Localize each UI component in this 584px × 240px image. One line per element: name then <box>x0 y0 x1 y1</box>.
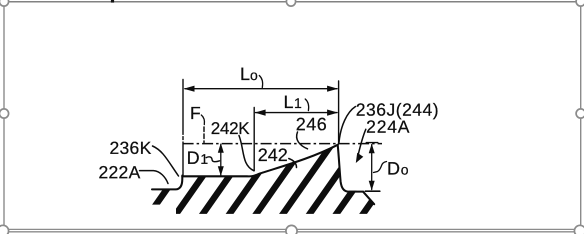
svg-text:L1: L1 <box>284 92 303 112</box>
wire L0 extension left <box>182 80 184 177</box>
selection frame top edge <box>4 1 581 3</box>
leader 236J <box>339 107 356 143</box>
arrow L0 right <box>327 86 338 92</box>
wire L1 extension left <box>253 108 255 171</box>
handle top-center <box>286 0 295 6</box>
dimension L0 line <box>185 88 337 90</box>
leader F curl <box>201 115 204 125</box>
svg-text:Lo: Lo <box>240 64 258 84</box>
svg-text:246: 246 <box>296 114 328 134</box>
dimension L1 line <box>256 112 338 114</box>
selection frame bottom double line <box>0 228 584 230</box>
leader 242 curl <box>289 159 297 168</box>
svg-text:D1: D1 <box>187 148 209 168</box>
arrow D1 up <box>218 143 224 153</box>
leader 242K <box>239 136 254 171</box>
arrow 224A tip <box>356 153 364 163</box>
selection frame right edge <box>580 2 582 229</box>
profile base surface + slope to peak <box>182 145 337 177</box>
leader Lo curl <box>259 76 262 88</box>
surface profile outline <box>152 145 374 204</box>
arrow D1 down <box>218 166 224 176</box>
handle bottom-right <box>574 225 584 236</box>
D0 top tick <box>366 142 378 144</box>
handle mid-right <box>576 109 584 118</box>
svg-text:Do: Do <box>387 159 409 179</box>
centerline dash-dot <box>183 143 382 145</box>
handle top-left <box>0 0 9 6</box>
profile right face + bottom flat <box>338 145 364 192</box>
leader 236K <box>153 146 179 176</box>
handle top-right <box>576 0 584 6</box>
profile right end cut <box>363 192 374 204</box>
svg-text:236K: 236K <box>109 138 151 158</box>
arrow L1 right <box>327 110 338 116</box>
cursor tick top <box>111 0 114 3</box>
arrow L1 left <box>255 110 266 116</box>
F dashed pointer line <box>203 127 205 143</box>
arrow L0 left <box>184 86 195 92</box>
leader 224A <box>357 129 366 158</box>
svg-text:224A: 224A <box>366 117 410 137</box>
svg-text:F: F <box>190 103 201 123</box>
handle mid-left <box>0 109 9 118</box>
hatching <box>148 139 416 216</box>
svg-text:242: 242 <box>258 145 288 165</box>
leader 246 curl <box>297 132 308 149</box>
handle bottom-left <box>0 225 9 236</box>
leader Do squiggle <box>374 162 387 173</box>
handle bottom-center <box>286 225 297 236</box>
D0 bottom tick <box>365 190 380 192</box>
arrow D0 down <box>369 181 375 191</box>
leader L1 curl <box>305 99 309 111</box>
profile left low surface + step wall <box>152 176 182 190</box>
dimension D1 line <box>220 145 222 176</box>
leader D1 squiggle <box>206 157 219 162</box>
svg-text:242K: 242K <box>211 119 250 138</box>
selection frame left edge <box>3 2 5 229</box>
leader 222A <box>140 171 169 184</box>
svg-text:222A: 222A <box>98 162 140 182</box>
arrow D0 up <box>369 144 375 154</box>
arrowheads <box>184 86 375 191</box>
dimension D0 line <box>371 145 373 190</box>
wire L0/L1 extension right <box>338 81 340 144</box>
